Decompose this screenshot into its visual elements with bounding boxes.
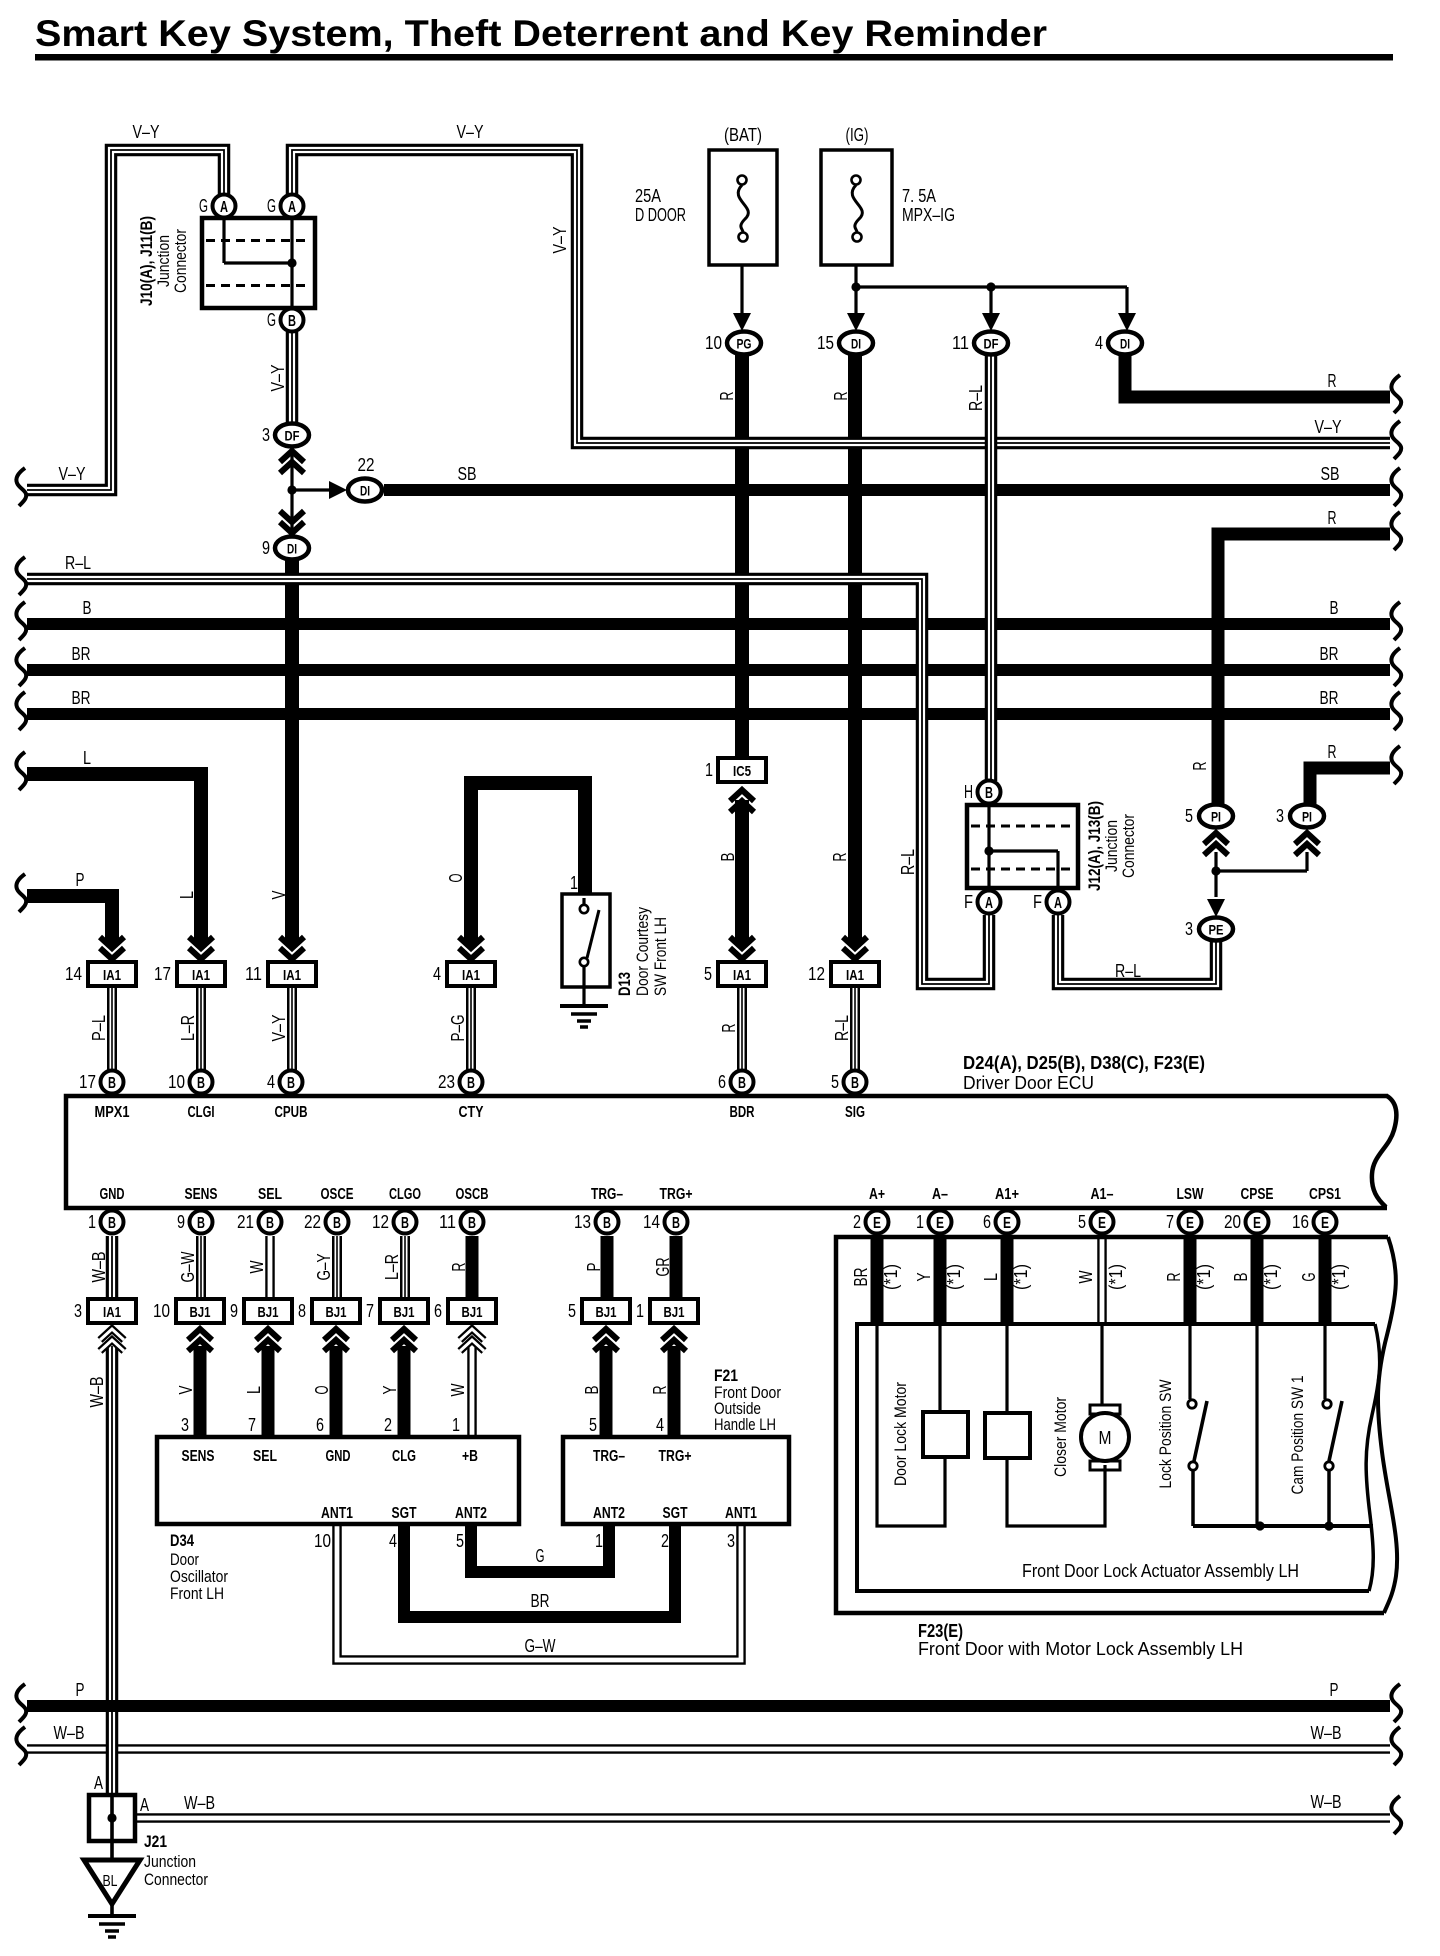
svg-text:3: 3: [727, 1531, 735, 1551]
svg-text:DI: DI: [851, 336, 861, 352]
right edge continuation curls: [1391, 375, 1401, 413]
wire BR bus 2: [27, 708, 1390, 720]
svg-text:B: B: [1231, 1273, 1251, 1282]
svg-text:A1–: A1–: [1091, 1186, 1114, 1203]
ECU pin CPS1 (16): [1314, 1211, 1337, 1234]
svg-text:(*1): (*1): [1011, 1264, 1031, 1290]
svg-text:IC5: IC5: [733, 763, 751, 780]
left edge continuation curls: [16, 468, 26, 506]
svg-text:GR: GR: [653, 1257, 673, 1276]
wire fuse BAT to PG: [740, 242, 743, 313]
svg-text:R: R: [1164, 1273, 1184, 1282]
svg-text:SB: SB: [458, 464, 477, 484]
svg-text:CPS1: CPS1: [1309, 1186, 1341, 1203]
ECU pin LSW (7): [1179, 1211, 1202, 1234]
svg-text:A1+: A1+: [995, 1186, 1019, 1203]
wire G-W antenna link: [337, 1522, 741, 1660]
svg-text:PI: PI: [1211, 809, 1221, 825]
svg-text:IA1: IA1: [846, 967, 864, 984]
svg-text:A: A: [140, 1795, 149, 1815]
svg-text:ANT1: ANT1: [321, 1505, 353, 1522]
wire O to CTY and D13: [471, 783, 585, 944]
svg-text:R–L: R–L: [1115, 961, 1141, 981]
svg-text:B: B: [985, 785, 993, 802]
svg-text:CTY: CTY: [459, 1104, 484, 1121]
svg-text:1: 1: [595, 1531, 603, 1551]
J12 pin B (H): [978, 781, 1001, 804]
svg-text:V–Y: V–Y: [269, 1015, 289, 1042]
svg-text:7: 7: [1166, 1212, 1174, 1232]
svg-text:IA1: IA1: [733, 967, 751, 984]
svg-text:B: B: [266, 1215, 274, 1232]
wire V to D34 SENS: [194, 1346, 207, 1437]
svg-text:21: 21: [237, 1212, 254, 1232]
svg-text:SGT: SGT: [663, 1505, 688, 1522]
svg-text:B: B: [83, 598, 92, 618]
J12 pin A (F right): [1047, 891, 1070, 914]
wire P-G CTY: [466, 985, 476, 1070]
inner box Front Door Lock Actuator Assembly LH: [857, 1324, 1375, 1591]
svg-text:7: 7: [248, 1415, 256, 1435]
wire GR TRG+ below ECU: [670, 1236, 683, 1300]
svg-text:L–R: L–R: [178, 1015, 198, 1041]
svg-text:(*1): (*1): [1329, 1264, 1349, 1290]
svg-text:G: G: [536, 1546, 545, 1566]
svg-text:TRG+: TRG+: [660, 1186, 693, 1203]
svg-text:W–B: W–B: [89, 1252, 109, 1283]
svg-text:G–Y: G–Y: [314, 1254, 334, 1281]
svg-text:GND: GND: [326, 1448, 351, 1465]
svg-text:4: 4: [1095, 333, 1103, 353]
IC5 connector box: [718, 758, 766, 782]
wire R-L from DF 11 to J12 pin B: [985, 354, 998, 781]
wire W A1-: [1097, 1237, 1107, 1324]
svg-text:BR: BR: [531, 1591, 550, 1611]
svg-text:1: 1: [452, 1415, 460, 1435]
svg-text:R: R: [449, 1263, 469, 1272]
wire BDR upper (PG to IC5): [735, 354, 749, 760]
svg-text:BL: BL: [103, 1873, 118, 1890]
svg-text:Closer Motor: Closer Motor: [1051, 1397, 1070, 1477]
svg-text:SENS: SENS: [185, 1186, 218, 1203]
svg-text:PG: PG: [737, 336, 752, 352]
svg-text:W: W: [247, 1261, 267, 1274]
connector BJ1 pin 7: [392, 1329, 416, 1351]
wire R right to PI 3: [1310, 768, 1390, 805]
svg-text:TRG–: TRG–: [593, 1448, 625, 1465]
svg-text:G: G: [267, 310, 276, 330]
svg-text:6: 6: [718, 1072, 726, 1092]
door lock motor contact boxes: [923, 1412, 968, 1457]
svg-text:PE: PE: [1209, 922, 1224, 938]
wire L to CLGI: [27, 774, 201, 944]
wire R-L J12 pin A to PE: [1058, 915, 1216, 984]
wire G-W SENS below ECU: [196, 1236, 206, 1300]
svg-text:7: 7: [366, 1301, 374, 1321]
svg-text:G: G: [1299, 1273, 1319, 1282]
svg-text:BJ1: BJ1: [326, 1304, 347, 1321]
svg-text:A: A: [985, 895, 993, 912]
wire G antenna link: [471, 1522, 609, 1572]
svg-text:PI: PI: [1302, 809, 1312, 825]
junction connector J10(A) J11(B): [202, 218, 315, 308]
svg-text:B: B: [287, 1075, 295, 1092]
wire CPSE junction: [1255, 1324, 1258, 1526]
wire W-B from J21 to right edge: [134, 1813, 1390, 1823]
svg-text:W: W: [448, 1384, 468, 1397]
connector IA1 pin 5: [730, 937, 754, 959]
svg-text:R: R: [1328, 371, 1337, 391]
svg-text:4: 4: [389, 1531, 397, 1551]
svg-text:E: E: [1253, 1215, 1261, 1232]
wire B CPSE: [1251, 1237, 1264, 1324]
fuse 7.5A MPX-IG (IG): [821, 150, 892, 265]
svg-text:W–B: W–B: [87, 1377, 107, 1408]
svg-text:LSW: LSW: [1177, 1186, 1205, 1203]
svg-text:10: 10: [153, 1301, 170, 1321]
svg-text:(*1): (*1): [1194, 1264, 1214, 1290]
svg-text:11: 11: [439, 1212, 456, 1232]
ECU pin OSCE (22): [326, 1211, 349, 1234]
wire W SEL below ECU: [265, 1236, 275, 1300]
wire V CPUB column: [285, 560, 299, 944]
wire R-L SIG: [850, 985, 860, 1070]
svg-text:OSCE: OSCE: [321, 1186, 354, 1203]
ECU pin SEL (21): [259, 1211, 282, 1234]
lock position switch: [1188, 1324, 1191, 1399]
node on IG branch at DF 11: [986, 282, 995, 291]
svg-text:Junction: Junction: [144, 1852, 196, 1871]
svg-text:V–Y: V–Y: [550, 227, 570, 254]
svg-text:A: A: [220, 199, 228, 216]
svg-text:BJ1: BJ1: [190, 1304, 211, 1321]
ECU pin GND (1): [101, 1211, 124, 1234]
svg-text:1: 1: [570, 873, 578, 893]
svg-text:W–B: W–B: [184, 1793, 215, 1813]
svg-text:16: 16: [1292, 1212, 1309, 1232]
svg-text:SENS: SENS: [182, 1448, 215, 1465]
svg-text:ANT2: ANT2: [593, 1505, 625, 1522]
svg-text:E: E: [873, 1215, 881, 1232]
svg-text:IA1: IA1: [103, 1304, 121, 1321]
svg-text:5: 5: [1078, 1212, 1086, 1232]
ground symbol: [88, 1914, 136, 1918]
svg-text:P–G: P–G: [448, 1015, 468, 1042]
svg-text:Front Door Lock Actuator Assem: Front Door Lock Actuator Assembly LH: [1022, 1561, 1299, 1581]
ground connector BL: [110, 1841, 114, 1860]
svg-text:BDR: BDR: [730, 1104, 755, 1121]
svg-text:BJ1: BJ1: [596, 1304, 617, 1321]
svg-text:Cam Position SW 1: Cam Position SW 1: [1288, 1376, 1307, 1495]
ECU pin CTY (23): [460, 1071, 483, 1094]
svg-text:IA1: IA1: [103, 967, 121, 984]
connector BJ1 pin 5: [594, 1329, 618, 1351]
svg-text:IA1: IA1: [283, 967, 301, 984]
svg-text:R: R: [830, 853, 850, 862]
node between PI and PE: [1211, 866, 1220, 875]
svg-text:E: E: [936, 1215, 944, 1232]
svg-text:(*1): (*1): [881, 1264, 901, 1290]
svg-text:IA1: IA1: [192, 967, 210, 984]
svg-text:SEL: SEL: [258, 1186, 282, 1203]
svg-text:MPX–IG: MPX–IG: [902, 205, 955, 225]
wire R BDR: [737, 985, 747, 1070]
component F21 Front Door Outside Handle LH: [563, 1437, 789, 1524]
svg-text:B: B: [108, 1215, 116, 1232]
svg-text:5: 5: [831, 1072, 839, 1092]
svg-text:20: 20: [1224, 1212, 1241, 1232]
svg-text:R: R: [1328, 742, 1337, 762]
svg-text:B: B: [197, 1075, 205, 1092]
connector DF pin 3: [280, 451, 304, 473]
svg-text:Handle LH: Handle LH: [714, 1415, 776, 1434]
connector IA1 pin 3 (ground chain): [100, 1329, 124, 1351]
svg-text:R: R: [717, 392, 737, 401]
wire G CPS1: [1319, 1237, 1332, 1324]
svg-text:14: 14: [65, 964, 82, 984]
svg-text:3: 3: [262, 425, 270, 445]
svg-text:R–L: R–L: [65, 553, 91, 573]
svg-text:(*1): (*1): [1261, 1264, 1281, 1290]
svg-text:Connector: Connector: [1119, 814, 1138, 878]
ECU pin MPX1 (17): [101, 1071, 124, 1094]
svg-text:(IG): (IG): [846, 125, 869, 145]
svg-text:IA1: IA1: [462, 967, 480, 984]
svg-text:9: 9: [230, 1301, 238, 1321]
wire Y to D34 CLG: [398, 1346, 411, 1437]
svg-text:J21: J21: [144, 1832, 167, 1851]
svg-text:DI: DI: [1120, 336, 1130, 352]
wire W to D34 +B: [467, 1346, 477, 1437]
svg-text:ANT1: ANT1: [725, 1505, 757, 1522]
svg-text:TRG+: TRG+: [659, 1448, 692, 1465]
svg-text:MPX1: MPX1: [95, 1104, 130, 1121]
wire V-Y CPUB pin B to DF 3: [286, 332, 299, 424]
wire R-L bus to J12 pin A: [27, 579, 989, 984]
svg-text:R–L: R–L: [898, 849, 918, 875]
svg-text:CLGI: CLGI: [188, 1104, 215, 1121]
svg-text:4: 4: [267, 1072, 275, 1092]
svg-text:CLG: CLG: [392, 1448, 416, 1465]
svg-text:G–W: G–W: [178, 1252, 198, 1283]
svg-text:8: 8: [298, 1301, 306, 1321]
svg-text:Front LH: Front LH: [170, 1584, 224, 1603]
svg-text:DI: DI: [287, 541, 297, 557]
svg-text:1: 1: [916, 1212, 924, 1232]
J10 pin A (right): [281, 195, 304, 218]
J12 pin A (F left): [978, 891, 1001, 914]
J10 pin B: [281, 309, 304, 332]
svg-text:Front Door with Motor Lock Ass: Front Door with Motor Lock Assembly LH: [918, 1639, 1243, 1659]
svg-text:V–Y: V–Y: [268, 365, 288, 392]
svg-text:7. 5A: 7. 5A: [902, 186, 936, 206]
svg-text:P: P: [1330, 1680, 1339, 1700]
connector BJ1 pin 10: [188, 1329, 212, 1351]
wire SIG (R): [848, 354, 862, 944]
svg-text:R: R: [719, 1024, 739, 1033]
svg-text:10: 10: [168, 1072, 185, 1092]
wire G-Y OSCE below ECU: [332, 1236, 342, 1300]
connector PI pin 5: [1204, 833, 1228, 855]
connector DI pin 15: [847, 313, 865, 331]
svg-text:B: B: [108, 1075, 116, 1092]
svg-text:BR: BR: [851, 1268, 871, 1287]
svg-text:(*1): (*1): [944, 1264, 964, 1290]
svg-text:ANT2: ANT2: [455, 1505, 487, 1522]
svg-text:L: L: [244, 1386, 264, 1394]
wire P to MPX1: [27, 896, 112, 944]
svg-text:R: R: [1190, 762, 1210, 771]
ECU box D24/D25/D38/F23 Driver Door ECU: [1372, 1096, 1397, 1207]
connector IA1 pin 14: [100, 937, 124, 959]
svg-text:L: L: [981, 1273, 1001, 1281]
ECU pin OSCB (11): [461, 1211, 484, 1234]
wire L-R CLGO below ECU: [400, 1236, 410, 1300]
svg-text:12: 12: [372, 1212, 389, 1232]
svg-text:SGT: SGT: [392, 1505, 417, 1522]
svg-text:22: 22: [304, 1212, 321, 1232]
svg-text:G–W: G–W: [525, 1636, 556, 1656]
svg-text:D34: D34: [170, 1531, 194, 1550]
svg-text:E: E: [1186, 1215, 1194, 1232]
svg-text:L: L: [177, 891, 197, 899]
wire L to D34 SEL: [262, 1346, 275, 1437]
wire R LSW: [1184, 1237, 1197, 1324]
svg-text:13: 13: [574, 1212, 591, 1232]
svg-text:Door Lock Motor: Door Lock Motor: [891, 1382, 910, 1486]
svg-text:Y: Y: [380, 1386, 400, 1395]
svg-text:D24(A), D25(B), D38(C), F23(E): D24(A), D25(B), D38(C), F23(E): [963, 1053, 1205, 1073]
component F23(E) Front Door with Motor Lock Assembly LH outer box: [836, 1237, 1388, 1613]
svg-text:B: B: [672, 1215, 680, 1232]
cam position switch 1: [1323, 1324, 1326, 1399]
svg-text:(*1): (*1): [1106, 1264, 1126, 1290]
wire V-Y right (junction connector to right edge): [292, 150, 1390, 443]
component D34 Door Oscillator Front LH: [157, 1437, 519, 1524]
svg-text:E: E: [1098, 1215, 1106, 1232]
junction connector J12(A) J13(B): [967, 805, 1078, 888]
svg-text:BJ1: BJ1: [258, 1304, 279, 1321]
ECU pin A+ (2): [866, 1211, 889, 1234]
svg-text:5: 5: [456, 1531, 464, 1551]
wire R right to PI 5: [1218, 534, 1390, 805]
wire R from DI 4 to right edge: [1125, 354, 1390, 397]
closer motor M: [1090, 1405, 1120, 1414]
svg-text:5: 5: [704, 964, 712, 984]
svg-text:1: 1: [88, 1212, 96, 1232]
svg-text:6: 6: [983, 1212, 991, 1232]
svg-text:Y: Y: [914, 1273, 934, 1282]
svg-text:B: B: [197, 1215, 205, 1232]
svg-text:TRG–: TRG–: [591, 1186, 623, 1203]
wire R to F21 TRG+: [668, 1346, 681, 1437]
svg-text:4: 4: [656, 1415, 664, 1435]
svg-text:3: 3: [74, 1301, 82, 1321]
svg-text:B: B: [718, 853, 738, 862]
svg-text:BR: BR: [72, 644, 91, 664]
ECU pin A1+ (6): [996, 1211, 1019, 1234]
wire B bus: [27, 618, 1390, 630]
svg-text:22: 22: [358, 455, 375, 475]
svg-text:SB: SB: [1321, 464, 1340, 484]
wire R OSCB below ECU: [466, 1236, 479, 1300]
svg-text:GND: GND: [100, 1186, 125, 1203]
wire BDR lower (B): [735, 800, 749, 944]
svg-text:BJ1: BJ1: [394, 1304, 415, 1321]
svg-text:V: V: [176, 1386, 196, 1395]
svg-text:B: B: [738, 1075, 746, 1092]
svg-text:Connector: Connector: [144, 1870, 208, 1889]
svg-text:25A: 25A: [635, 186, 661, 206]
ground below D13: [560, 1004, 608, 1008]
svg-text:14: 14: [643, 1212, 660, 1232]
svg-text:E: E: [1321, 1215, 1329, 1232]
svg-text:P: P: [76, 870, 85, 890]
svg-text:W–B: W–B: [54, 1723, 85, 1743]
svg-text:10: 10: [705, 333, 722, 353]
svg-text:2: 2: [853, 1212, 861, 1232]
connector BJ1 pin 1: [662, 1329, 686, 1351]
svg-text:D13: D13: [615, 972, 634, 996]
connector BJ1 pin 6: [460, 1329, 484, 1351]
svg-text:Door Courtesy: Door Courtesy: [633, 907, 652, 996]
ECU pin TRG+ (14): [665, 1211, 688, 1234]
ECU pin A– (1): [929, 1211, 952, 1234]
node on IG branch at DI 15: [851, 282, 860, 291]
svg-text:BJ1: BJ1: [664, 1304, 685, 1321]
connector IA1 pin 4: [459, 937, 483, 959]
connector IA1 pin 12: [843, 937, 867, 959]
connector DF pin 11: [982, 313, 1000, 331]
svg-text:DF: DF: [285, 428, 300, 444]
wire SB bus: [384, 484, 1390, 496]
svg-text:BR: BR: [1320, 688, 1339, 708]
svg-text:D DOOR: D DOOR: [635, 205, 686, 225]
connector IA1 pin 11: [280, 937, 304, 959]
svg-text:1: 1: [636, 1301, 644, 1321]
wire L A1+: [1001, 1237, 1014, 1324]
svg-text:O: O: [312, 1386, 332, 1395]
svg-text:M: M: [1099, 1428, 1112, 1448]
svg-text:(BAT): (BAT): [724, 125, 762, 145]
svg-text:B: B: [288, 313, 296, 330]
svg-text:G: G: [267, 196, 276, 216]
svg-text:R: R: [650, 1386, 670, 1395]
svg-text:V: V: [269, 891, 289, 900]
svg-text:B: B: [333, 1215, 341, 1232]
ECU pin TRG– (13): [596, 1211, 619, 1234]
wire V-Y CPUB: [287, 985, 297, 1070]
wire node to DF 3 / DI 22 / DI 9: [292, 449, 330, 534]
wire W-B horizontal bus lower: [27, 1744, 1390, 1754]
svg-text:F: F: [964, 892, 973, 912]
svg-text:3: 3: [181, 1415, 189, 1435]
wire BR antenna link: [404, 1522, 675, 1617]
svg-text:SEL: SEL: [253, 1448, 277, 1465]
fuse 25A D DOOR (BAT): [709, 150, 777, 265]
svg-text:G: G: [199, 196, 208, 216]
svg-text:F: F: [1033, 892, 1042, 912]
ECU pin SENS (9): [190, 1211, 213, 1234]
svg-text:11: 11: [952, 333, 969, 353]
svg-text:L–R: L–R: [382, 1254, 402, 1280]
svg-text:6: 6: [316, 1415, 324, 1435]
svg-text:4: 4: [433, 964, 441, 984]
svg-text:H: H: [964, 782, 973, 802]
svg-text:Driver Door ECU: Driver Door ECU: [963, 1073, 1094, 1093]
svg-text:P: P: [76, 1680, 85, 1700]
svg-text:B: B: [468, 1215, 476, 1232]
